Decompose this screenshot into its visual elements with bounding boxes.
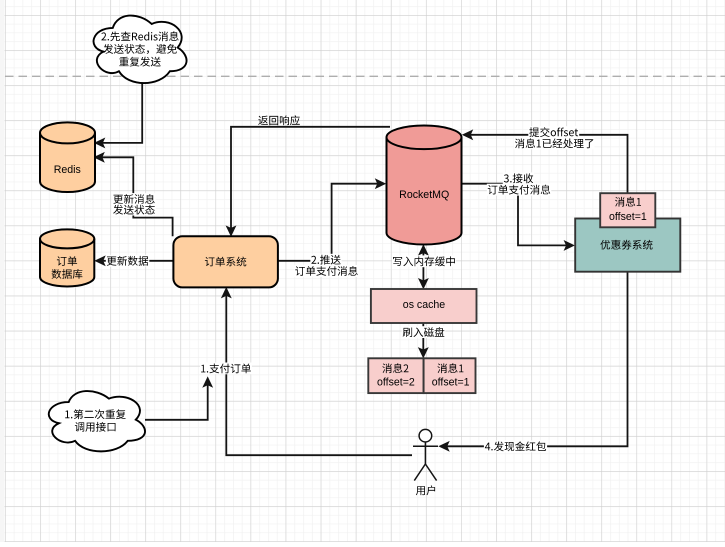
svg-text:offset=1: offset=1 bbox=[432, 376, 470, 388]
svg-text:Redis: Redis bbox=[54, 164, 81, 176]
svg-text:offset=2: offset=2 bbox=[377, 376, 415, 388]
cloud note 1 (second duplicate call) bbox=[49, 391, 145, 451]
label 4.red packet bbox=[484, 440, 547, 452]
label order system bbox=[205, 257, 246, 267]
edge order-system to order-db (update data) bbox=[96, 256, 174, 265]
edge os-cache to message blocks (flush disk) bbox=[419, 323, 428, 357]
label cloud2 line2 bbox=[103, 44, 176, 54]
edge RocketMQ to os-cache (write memory buffer, double arrow) bbox=[419, 245, 428, 288]
label 3.receive line2 bbox=[487, 184, 552, 196]
label message1 bottom bbox=[437, 363, 463, 373]
page break dashed line bbox=[5, 75, 725, 77]
rounded rect order system bbox=[173, 236, 278, 287]
label order db line1 bbox=[57, 256, 77, 266]
label cloud1 line2 bbox=[75, 422, 116, 432]
rect message1 offset1 top bbox=[600, 193, 655, 227]
svg-text:os cache: os cache bbox=[403, 299, 446, 311]
cylinder order database bbox=[40, 229, 94, 286]
label write memory buffer bbox=[392, 255, 456, 267]
edge RocketMQ to coupon (3.receive) bbox=[462, 184, 574, 250]
label flush disk bbox=[402, 326, 446, 338]
label 2.push line2 bbox=[294, 265, 359, 277]
cylinder RocketMQ bbox=[387, 126, 462, 245]
edge RocketMQ to order-system (return response) bbox=[227, 127, 390, 236]
edge coupon to user (4.found red packet) bbox=[440, 272, 628, 451]
label return response bbox=[258, 115, 300, 125]
label cloud1 line1 bbox=[65, 409, 126, 419]
edge coupon to RocketMQ (commit offset) bbox=[463, 130, 628, 193]
label user bbox=[416, 485, 435, 495]
svg-text:offset=1: offset=1 bbox=[609, 211, 647, 223]
label commit offset line2 bbox=[514, 137, 595, 149]
rect message2 offset2 bbox=[368, 358, 423, 393]
label message1 top bbox=[615, 197, 641, 207]
cylinder Redis bbox=[40, 122, 95, 192]
label update msg status line2 bbox=[112, 204, 156, 216]
label cloud2 line1 bbox=[101, 31, 178, 41]
label update data bbox=[106, 255, 150, 267]
label cloud2 line3 bbox=[119, 57, 161, 67]
cloud note 2 (check Redis status) bbox=[94, 16, 187, 84]
edge cloud2 pointer bbox=[145, 378, 212, 420]
edge order-system to Redis (update message status) bbox=[95, 153, 173, 236]
label 2.push line1 bbox=[310, 254, 341, 266]
svg-text:RocketMQ: RocketMQ bbox=[399, 189, 449, 201]
label update msg status line1 bbox=[112, 193, 155, 205]
label order db line2 bbox=[52, 269, 83, 279]
actor user bbox=[413, 429, 438, 480]
label commit offset line1 bbox=[528, 126, 579, 138]
edge order-system to RocketMQ (2.push) bbox=[278, 179, 385, 260]
edge user to order-system (1.pay order) bbox=[222, 288, 412, 455]
rect coupon system bbox=[575, 219, 680, 272]
label coupon system bbox=[600, 240, 652, 250]
label message2 bbox=[382, 363, 408, 373]
edge cloud1 to Redis bbox=[95, 83, 142, 147]
label 3.receive line1 bbox=[503, 172, 534, 184]
rect os cache bbox=[371, 289, 477, 323]
rect message1 offset1 bottom bbox=[424, 358, 476, 393]
label 1.pay order bbox=[200, 363, 252, 375]
off-page strip left bbox=[0, 0, 5, 542]
